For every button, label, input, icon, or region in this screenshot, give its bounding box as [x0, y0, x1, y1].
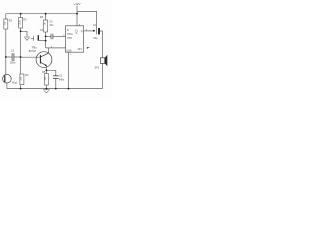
svg-text:C1: C1 — [11, 48, 15, 52]
node ground branch — [20, 30, 22, 32]
wire R5 bottom leg — [45, 85, 47, 89]
svg-text:DIS: DIS — [78, 48, 82, 51]
node +12V — [76, 13, 78, 15]
node rail R5 — [46, 88, 48, 90]
wire R3 bottom leg — [20, 85, 22, 89]
svg-text:THR: THR — [67, 37, 72, 40]
svg-text:Q: Q — [81, 30, 83, 33]
svg-text:+12V: +12V — [73, 2, 80, 6]
resistor R1 — [4, 19, 13, 29]
transistor Q1 — [29, 46, 52, 68]
wire C3 bottom leg — [55, 78, 57, 88]
wire +12V drop — [76, 6, 78, 14]
capacitor C4 (polarized, to speaker) — [93, 24, 100, 40]
wire node A to C5 — [46, 35, 51, 37]
port mark near DIS — [87, 47, 89, 49]
wire C4 to speaker drop — [100, 31, 103, 58]
resistor R2 — [19, 17, 28, 28]
wire emitter node to C3 — [46, 70, 55, 76]
wire R4 bottom to node A — [45, 32, 47, 36]
wire R1 top leg — [5, 14, 7, 19]
wire speaker bottom leg — [101, 63, 103, 88]
wire Q1 collector riser — [48, 48, 50, 53]
wire base of Q1 — [21, 56, 40, 58]
capacitor C1 — [10, 48, 16, 64]
svg-text:GND: GND — [66, 50, 72, 53]
svg-text:TRIG: TRIG — [67, 33, 73, 36]
node R2 top — [20, 13, 22, 15]
svg-text:20p: 20p — [93, 37, 98, 40]
wire C2 left stub — [31, 38, 34, 40]
svg-text:100n: 100n — [10, 61, 16, 65]
wire R5 top leg — [45, 70, 47, 73]
node emitter — [46, 69, 48, 71]
wire IC VCC pin 8 leg — [76, 14, 78, 26]
svg-text:940n: 940n — [59, 78, 65, 81]
wire R2 top leg — [20, 14, 22, 18]
wire C2 to node B — [39, 40, 46, 42]
capacitor C5 — [49, 21, 54, 40]
capacitor C3 — [53, 74, 65, 81]
IC U1 555 timer — [66, 26, 84, 53]
node output — [93, 30, 95, 32]
svg-text:10n: 10n — [49, 24, 54, 27]
wire node A down through node B to CV row — [45, 36, 47, 48]
speaker SP1 — [95, 55, 108, 70]
svg-text:Mic1: Mic1 — [12, 81, 18, 84]
resistor R4 — [40, 15, 48, 32]
wire microphone bottom — [6, 83, 8, 89]
wire C1 left — [6, 56, 12, 58]
node C1 left — [5, 56, 7, 58]
svg-text:R3: R3 — [25, 73, 29, 77]
wire supply branch over to C4 — [77, 11, 97, 34]
node rail R3 — [20, 88, 22, 90]
node B — [45, 40, 47, 42]
wire Q1 emitter down — [45, 66, 47, 71]
microphone MIC1 — [3, 74, 18, 84]
svg-text:R: R — [67, 29, 69, 32]
wire branch to ground arrow — [21, 31, 27, 36]
wire top supply rail — [6, 13, 77, 15]
svg-text:R1: R1 — [9, 19, 13, 23]
node A — [45, 36, 47, 38]
wire IC GND pin 1 leg — [67, 52, 69, 88]
wire CV pin 5 row to IC — [46, 47, 66, 49]
node rail GND pin — [68, 88, 70, 90]
svg-text:VCC: VCC — [76, 29, 79, 34]
svg-text:BC547: BC547 — [29, 50, 37, 53]
wire R2 bottom down to R3 — [20, 28, 22, 74]
svg-text:R4: R4 — [40, 15, 44, 19]
wire bottom ground rail — [7, 88, 103, 90]
svg-text:R2: R2 — [23, 17, 27, 21]
capacitor C2 (polarized) — [34, 28, 44, 49]
wire R1 bottom to microphone — [5, 29, 7, 75]
node rail C3 — [55, 88, 57, 90]
node C1 right — [20, 56, 22, 58]
wire C5 to IC pin 6 — [53, 35, 66, 37]
wire IC output pin 3 — [84, 30, 94, 32]
resistor R3 — [20, 73, 29, 85]
svg-text:SP1: SP1 — [95, 67, 100, 70]
ground symbol below R5 — [43, 90, 50, 93]
wire C1 right — [14, 56, 21, 58]
ground symbol near C2 — [24, 37, 30, 41]
resistor R5 — [42, 71, 48, 85]
svg-text:100k: 100k — [19, 20, 21, 26]
node R4 top — [45, 13, 47, 15]
svg-text:C2: C2 — [40, 28, 44, 32]
wire R4 top leg — [45, 14, 47, 20]
junction dots — [5, 13, 95, 90]
